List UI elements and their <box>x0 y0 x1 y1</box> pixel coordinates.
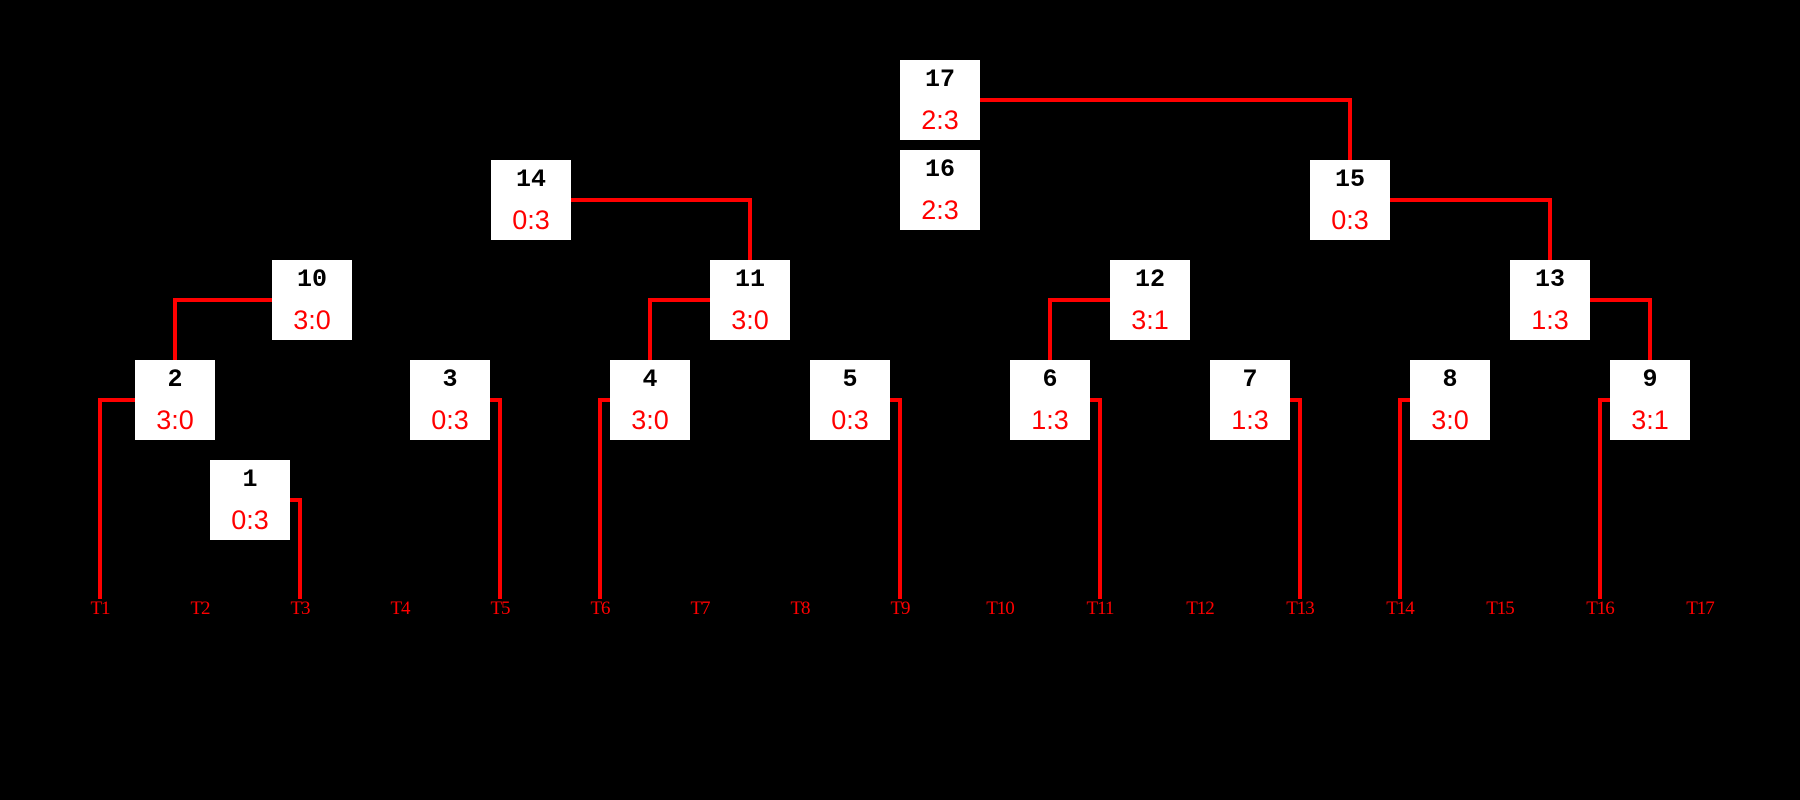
wire: drop to match 11 top <box>748 200 752 260</box>
team label T16 <box>1560 601 1640 617</box>
wire: leg line down to T1 <box>98 398 102 599</box>
team label T6 <box>560 601 640 617</box>
team label T1 <box>60 601 140 617</box>
wire: leg line down to T3 <box>298 498 302 599</box>
wire: leg line down to T11 <box>1098 398 1102 599</box>
wire: leg connector from match 6 to T11 <box>1090 398 1102 402</box>
match box 14 <box>491 160 571 240</box>
team label T17 <box>1660 601 1740 617</box>
match box 3 <box>410 360 490 440</box>
match box 15 <box>1310 160 1390 240</box>
team label T14 <box>1360 601 1440 617</box>
wire: connector match 13 to match 9 <box>1590 298 1652 302</box>
wire: riser from match 4 top <box>648 298 652 360</box>
team label T15 <box>1460 601 1540 617</box>
match box 7 <box>1210 360 1290 440</box>
wire: leg line down to T13 <box>1298 398 1302 599</box>
wire: connector match 2 to match 10 <box>173 298 272 302</box>
wire: leg line down to T16 <box>1598 398 1602 599</box>
wire: leg line down to T9 <box>898 398 902 599</box>
match box 9 <box>1610 360 1690 440</box>
wire: leg connector from match 8 to T14 <box>1398 398 1410 402</box>
wire: leg connector from match 5 to T9 <box>890 398 902 402</box>
wire: leg connector from match 3 to T5 <box>490 398 502 402</box>
match box 10 <box>272 260 352 340</box>
team label T7 <box>660 601 740 617</box>
wire: leg connector from match 7 to T13 <box>1290 398 1302 402</box>
wire: riser from match 2 top <box>173 298 177 360</box>
team label T12 <box>1160 601 1240 617</box>
team label T11 <box>1060 601 1140 617</box>
team label T8 <box>760 601 840 617</box>
wire: leg connector from match 4 to T6 <box>598 398 610 402</box>
match box 5 <box>810 360 890 440</box>
match box 12 <box>1110 260 1190 340</box>
wire: leg connector from match 2 to T1 <box>98 398 135 402</box>
match box 11 <box>710 260 790 340</box>
match box 1 <box>210 460 290 540</box>
team label T2 <box>160 601 240 617</box>
wire: drop to match 15 top <box>1348 98 1352 160</box>
team label T5 <box>460 601 540 617</box>
match box 13 <box>1510 260 1590 340</box>
match box 8 <box>1410 360 1490 440</box>
wire: leg line down to T14 <box>1398 398 1402 599</box>
team label T13 <box>1260 601 1340 617</box>
match box 17 <box>900 60 980 140</box>
wire: connector match 4 to match 11 <box>648 298 710 302</box>
wire: leg connector from match 9 to T16 <box>1598 398 1610 402</box>
wire: connector match 17 to match 15 <box>980 98 1352 102</box>
match box 16 <box>900 150 980 230</box>
wire: leg line down to T5 <box>498 398 502 599</box>
team label T4 <box>360 601 440 617</box>
wire: drop to match 13 top <box>1548 200 1552 260</box>
wire: drop to match 9 top <box>1648 300 1652 360</box>
team label T3 <box>260 601 340 617</box>
match box 6 <box>1010 360 1090 440</box>
wire: connector match 6 to match 12 <box>1048 298 1110 302</box>
wire: riser from match 6 top <box>1048 298 1052 360</box>
wire: leg connector from match 1 to T3 <box>290 498 302 502</box>
wire: connector match 15 to match 13 <box>1390 198 1552 202</box>
match box 2 <box>135 360 215 440</box>
team label T10 <box>960 601 1040 617</box>
team label T9 <box>860 601 940 617</box>
match box 4 <box>610 360 690 440</box>
wire: connector match 14 to match 11 <box>571 198 752 202</box>
wire: leg line down to T6 <box>598 398 602 599</box>
